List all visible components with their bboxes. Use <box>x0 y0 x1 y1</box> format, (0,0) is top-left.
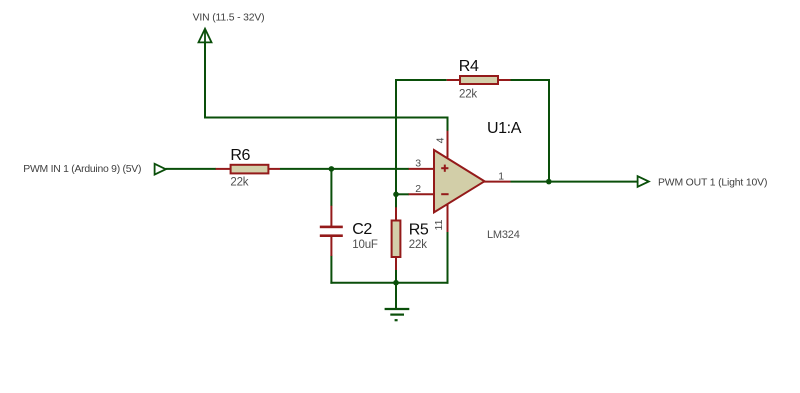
svg-text:R4: R4 <box>459 58 479 75</box>
svg-text:4: 4 <box>435 137 447 143</box>
svg-text:3: 3 <box>415 157 421 169</box>
svg-text:C2: C2 <box>352 221 372 238</box>
svg-text:22k: 22k <box>409 239 427 251</box>
svg-text:R5: R5 <box>409 222 429 239</box>
svg-text:1: 1 <box>498 171 504 183</box>
svg-text:PWM IN 1 (Arduino 9) (5V): PWM IN 1 (Arduino 9) (5V) <box>23 164 141 175</box>
svg-text:10uF: 10uF <box>352 239 378 251</box>
svg-text:22k: 22k <box>459 88 477 100</box>
svg-text:R6: R6 <box>230 147 250 164</box>
svg-text:PWM OUT 1 (Light 10V): PWM OUT 1 (Light 10V) <box>658 177 767 188</box>
svg-text:U1:A: U1:A <box>487 120 522 137</box>
svg-text:11: 11 <box>433 219 445 230</box>
svg-text:22k: 22k <box>230 176 248 188</box>
svg-text:VIN (11.5 - 32V): VIN (11.5 - 32V) <box>193 12 265 23</box>
svg-text:LM324: LM324 <box>487 229 520 241</box>
svg-text:2: 2 <box>415 183 421 195</box>
